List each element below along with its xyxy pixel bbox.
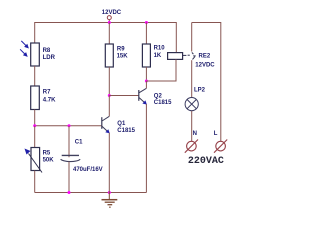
junction at R10	[145, 21, 148, 24]
label R5 / 50K	[43, 151, 55, 164]
label R7 / 4.7K	[43, 90, 56, 104]
svg-text:C1815: C1815	[117, 128, 135, 134]
svg-text:LDR: LDR	[43, 55, 56, 61]
wire R10 bottom lead	[145, 67, 147, 81]
junction at C1 bottom	[68, 191, 71, 194]
wire R8 to R7	[34, 66, 36, 86]
wire base net horizontal	[35, 125, 102, 127]
svg-text:R9: R9	[117, 47, 125, 53]
junction at Q2 collector	[145, 80, 148, 83]
wire Q1 emitter vertical	[108, 133, 110, 193]
svg-text:50K: 50K	[43, 158, 55, 164]
svg-text:4.7K: 4.7K	[43, 97, 56, 103]
svg-text:220VAC: 220VAC	[188, 156, 224, 167]
resistor R9 body	[105, 44, 113, 67]
wire R5 to bottom rail	[34, 171, 36, 193]
LDR arrow 1	[21, 41, 29, 49]
resistor R10 body	[142, 44, 150, 67]
LDR arrow 2	[20, 49, 28, 57]
wire Q2 emitter vertical	[145, 104, 147, 193]
wire Q1 collector to Q2 base	[109, 95, 139, 97]
potentiometer R5 arrow	[25, 149, 43, 173]
svg-text:R5: R5	[43, 151, 51, 157]
svg-text:12VDC: 12VDC	[102, 10, 122, 16]
wire bottom rail	[35, 192, 147, 194]
wire top power rail	[35, 22, 177, 24]
wire top right rail	[192, 22, 221, 24]
wire R7 to base net	[34, 110, 36, 126]
svg-text:470uF/16V: 470uF/16V	[73, 167, 103, 173]
junction at ground	[108, 191, 111, 194]
wire lamp to N terminal	[191, 111, 193, 141]
relay contact	[188, 52, 196, 59]
label R10 / 1K	[154, 46, 166, 59]
lamp LP2	[185, 98, 198, 111]
label R8 / LDR	[43, 48, 56, 61]
capacitor C1 bottom curved plate	[61, 159, 81, 161]
junction at C1 top	[68, 124, 71, 127]
wire C1 bottom lead	[68, 162, 70, 193]
transistor Q1	[102, 116, 110, 133]
wire Q1 collector vertical	[108, 96, 110, 117]
svg-text:R7: R7	[43, 90, 51, 96]
wire R9 bottom lead	[108, 67, 110, 96]
label R9 / 15K	[117, 47, 129, 60]
svg-text:Q2: Q2	[154, 93, 163, 99]
ground	[102, 193, 118, 208]
svg-text:R8: R8	[43, 48, 51, 54]
junction at R9 / 12VDC	[108, 21, 111, 24]
wire C1 top lead	[68, 126, 70, 158]
wire to R5	[34, 126, 36, 148]
wire contact top stub	[191, 23, 193, 52]
svg-text:C1815: C1815	[154, 100, 172, 106]
svg-text:RE2: RE2	[199, 54, 211, 60]
junction at Q1 collector	[108, 94, 111, 97]
capacitor C1 top plate	[62, 154, 79, 156]
terminal L	[214, 140, 227, 153]
wire coil bottom to Q2 collector	[146, 59, 176, 81]
label RE2 / 12VDC	[195, 54, 215, 69]
resistor R7 body	[31, 86, 40, 110]
relay coil right stub	[183, 54, 187, 56]
terminal 12VDC	[107, 16, 111, 20]
svg-text:12VDC: 12VDC	[195, 62, 215, 68]
wire L vertical	[220, 22, 222, 141]
wire R10 top lead	[145, 23, 147, 45]
wire contact bottom to lamp	[191, 60, 193, 98]
potentiometer R5 body	[31, 148, 40, 171]
label Q2 / C1815	[154, 93, 172, 106]
svg-text:L: L	[214, 131, 218, 137]
junction at R7/R5	[33, 124, 36, 127]
terminal N	[185, 140, 198, 153]
label Q1 / C1815	[117, 121, 135, 134]
svg-text:Q1: Q1	[117, 121, 126, 127]
svg-text:1K: 1K	[154, 53, 162, 59]
svg-text:LP2: LP2	[194, 87, 206, 93]
wire R9 top lead	[108, 23, 110, 45]
wire stub from 12VDC terminal	[108, 20, 110, 23]
svg-text:15K: 15K	[117, 54, 129, 60]
wire Q2 collector vertical	[145, 81, 147, 88]
transistor Q2	[139, 88, 147, 104]
resistor R8 body	[31, 43, 40, 66]
svg-text:C1: C1	[75, 140, 83, 146]
wire rail to R8 top	[34, 22, 36, 43]
wire rail to relay coil	[175, 22, 177, 53]
relay RE2 coil	[168, 53, 183, 60]
svg-text:R10: R10	[154, 46, 166, 52]
svg-text:N: N	[193, 131, 197, 137]
